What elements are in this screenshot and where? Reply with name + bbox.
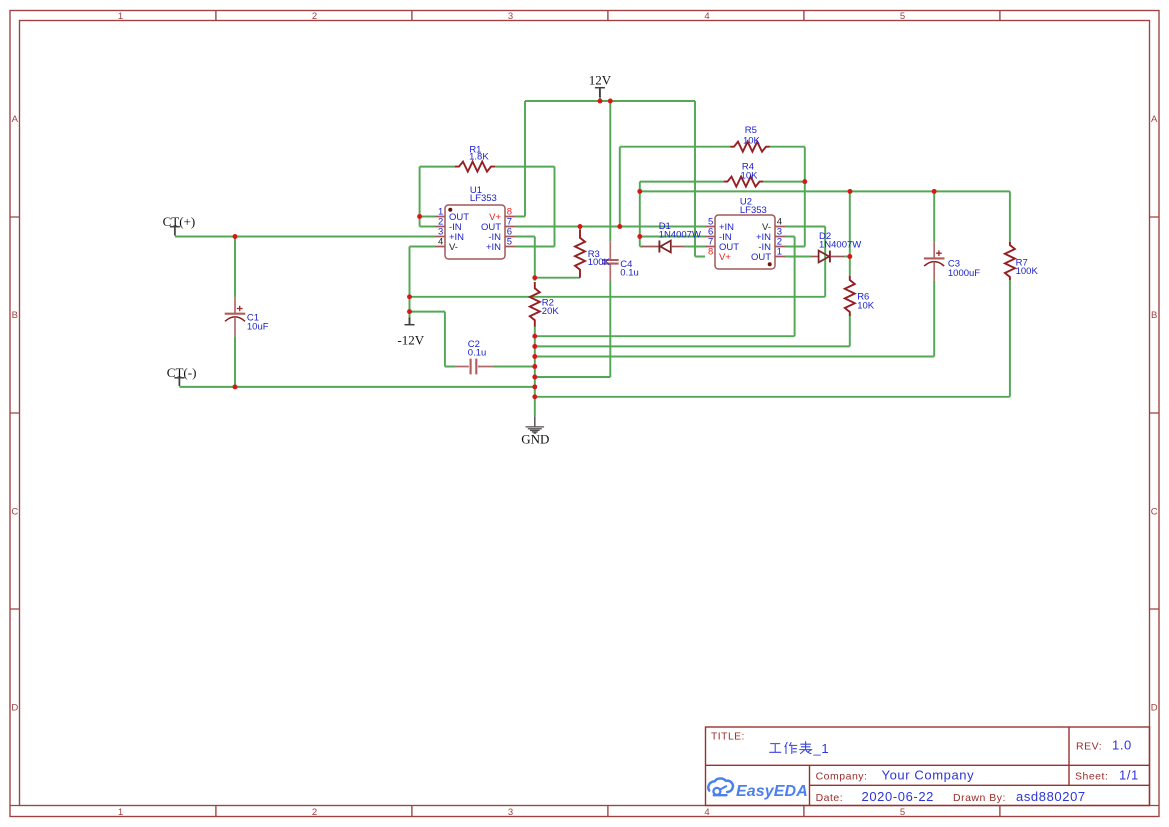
svg-text:10K: 10K bbox=[741, 170, 759, 181]
svg-text:1/1: 1/1 bbox=[1119, 768, 1139, 783]
wire 12V flag stub bbox=[599, 96, 601, 101]
wire 12V down to U2 pin8 bbox=[695, 101, 705, 257]
svg-text:V-: V- bbox=[449, 242, 458, 253]
wire GND bus vertical bbox=[534, 326, 536, 416]
wire CT(+) to U1 pin3 bbox=[175, 236, 435, 238]
node CT(-)/C1 bbox=[233, 384, 238, 389]
node R3 top bbox=[578, 224, 583, 229]
wire D2/R6 vertical bbox=[849, 191, 851, 256]
resistor R3 100K bbox=[575, 230, 611, 278]
node GND bus 6 bbox=[532, 384, 537, 389]
node rail/R6 bbox=[848, 189, 853, 194]
wire R4 right bbox=[763, 181, 804, 183]
svg-text:D: D bbox=[1151, 703, 1158, 714]
svg-text:TITLE:: TITLE: bbox=[711, 732, 745, 743]
resistor R2 20K bbox=[530, 282, 560, 327]
svg-text:A: A bbox=[12, 114, 19, 125]
svg-text:_1: _1 bbox=[813, 741, 830, 756]
svg-text:OUT: OUT bbox=[751, 252, 771, 263]
svg-text:1N4007W: 1N4007W bbox=[819, 240, 861, 251]
svg-text:C: C bbox=[11, 506, 18, 517]
svg-text:D: D bbox=[11, 703, 18, 714]
wire D2 to junction bbox=[845, 256, 850, 258]
node GND bus 3 bbox=[532, 354, 537, 359]
svg-text:1: 1 bbox=[118, 11, 123, 22]
op-amp U2 LF353 bbox=[705, 197, 785, 269]
wire R5 right bbox=[770, 146, 805, 148]
svg-text:1.8K: 1.8K bbox=[469, 151, 489, 162]
node 12V flag bbox=[598, 99, 603, 104]
resistor R5 10K bbox=[730, 125, 770, 152]
svg-text:+IN: +IN bbox=[486, 242, 501, 253]
wire U1 pin2 bbox=[420, 226, 435, 228]
node R4 right bbox=[802, 179, 807, 184]
node R3/R2/U1 pin6 bbox=[532, 275, 537, 280]
svg-text:4: 4 bbox=[438, 237, 443, 248]
svg-text:4: 4 bbox=[704, 807, 709, 818]
wire C1 top branch bbox=[234, 237, 236, 298]
resistor R6 10K bbox=[845, 276, 875, 316]
svg-text:3: 3 bbox=[508, 807, 513, 818]
capacitor C4 0.1u bbox=[602, 242, 639, 282]
svg-text:100K: 100K bbox=[1016, 266, 1039, 277]
wire U1 pin8 to 12V rail bbox=[515, 101, 525, 217]
svg-text:0.1u: 0.1u bbox=[468, 347, 487, 358]
capacitor C1 10uF polarized bbox=[225, 297, 269, 336]
wire R3 top stub bbox=[579, 227, 581, 231]
node rail/C3 bbox=[932, 189, 937, 194]
svg-text:10K: 10K bbox=[857, 300, 875, 311]
svg-text:B: B bbox=[12, 310, 18, 321]
wire D1 anode to U2 pin7 bbox=[685, 246, 705, 248]
wire R6 top stub bbox=[849, 257, 851, 277]
node -12V rail bbox=[407, 294, 412, 299]
wire U2 pin6 bbox=[640, 236, 705, 238]
wire R6 bottom to GND bus bbox=[535, 316, 850, 347]
wire U1 pin1 bbox=[420, 216, 435, 218]
svg-text:Drawn By:: Drawn By: bbox=[953, 792, 1006, 804]
wire U1 pin4 to -12V bbox=[410, 247, 436, 319]
node GND bus 5 bbox=[532, 375, 537, 380]
svg-text:C: C bbox=[1151, 506, 1158, 517]
wire 12V rail bbox=[525, 100, 695, 102]
svg-text:2: 2 bbox=[312, 11, 317, 22]
node R1/U1 pin1 bbox=[417, 214, 422, 219]
node -12V/C2 bbox=[407, 309, 412, 314]
svg-text:8: 8 bbox=[708, 247, 713, 258]
node D2/R6 bbox=[847, 254, 852, 259]
wire U1 pin7 OUT to U2 pin5 bbox=[515, 226, 705, 228]
svg-text:20K: 20K bbox=[542, 306, 560, 317]
node D1/U2 pin6 bbox=[637, 234, 642, 239]
svg-text:V+: V+ bbox=[719, 252, 731, 263]
wire C2 right to GND bus bbox=[494, 366, 535, 368]
wire R7 bottom to GND bus bbox=[535, 280, 1010, 397]
wire R1 left horizontal bbox=[420, 166, 455, 168]
svg-text:12V: 12V bbox=[589, 73, 612, 88]
svg-text:asd880207: asd880207 bbox=[1016, 789, 1086, 804]
net flag CT(+) bbox=[163, 214, 196, 236]
node R4/rail bbox=[637, 189, 642, 194]
node CT(+)/C1 bbox=[233, 234, 238, 239]
svg-text:1000uF: 1000uF bbox=[948, 268, 980, 279]
svg-text:LF353: LF353 bbox=[470, 193, 497, 204]
CJK title 工作表_1 bbox=[769, 741, 812, 754]
svg-text:R5: R5 bbox=[745, 125, 757, 136]
svg-text:-12V: -12V bbox=[397, 333, 424, 348]
wire C3 top stub bbox=[933, 191, 935, 241]
svg-text:Sheet:: Sheet: bbox=[1075, 771, 1108, 783]
wire C1 bottom to CT(-) net bbox=[234, 336, 236, 387]
wire U2 pin4 V- down bbox=[785, 227, 825, 297]
node GND bus 7 bbox=[532, 394, 537, 399]
node GND bus 1 bbox=[532, 334, 537, 339]
svg-text:10uF: 10uF bbox=[247, 321, 269, 332]
svg-text:0.1u: 0.1u bbox=[620, 267, 639, 278]
svg-text:2020-06-22: 2020-06-22 bbox=[862, 789, 935, 804]
node GND bus 2 bbox=[532, 344, 537, 349]
resistor R1 1.8K bbox=[455, 144, 496, 171]
svg-text:REV:: REV: bbox=[1076, 741, 1102, 753]
wire R1 left vertical bbox=[419, 167, 421, 227]
wire R1 right to U1 pin5 bbox=[495, 167, 554, 247]
diode D1 1N4007W bbox=[642, 221, 701, 253]
wire -12V rail horizontal bbox=[410, 296, 826, 298]
svg-text:A: A bbox=[1151, 114, 1158, 125]
wire U2 pin1 to D2 bbox=[785, 256, 811, 258]
wire -12V to C2 bbox=[410, 312, 456, 367]
svg-text:1.0: 1.0 bbox=[1112, 738, 1132, 753]
wire D1 cathode link bbox=[640, 246, 643, 248]
svg-text:B: B bbox=[1151, 310, 1157, 321]
node R5 branch bbox=[617, 224, 622, 229]
svg-text:5: 5 bbox=[900, 11, 905, 22]
node 12V/C4 bbox=[608, 99, 613, 104]
svg-text:Company:: Company: bbox=[816, 771, 868, 783]
svg-text:5: 5 bbox=[507, 237, 512, 248]
diode D2 1N4007W bbox=[811, 231, 861, 262]
EasyEDA logo bbox=[708, 778, 733, 795]
net flag CT(-) bbox=[167, 365, 197, 386]
resistor R4 10K bbox=[724, 161, 764, 186]
svg-text:GND: GND bbox=[521, 431, 549, 446]
wire main rail y191 bbox=[640, 190, 1010, 192]
wire R5 left bbox=[620, 147, 730, 227]
wire C4 top from 12V rail bbox=[609, 101, 611, 242]
net flag -12V bbox=[397, 318, 424, 348]
wire R7 top stub bbox=[1009, 191, 1011, 242]
svg-text:2: 2 bbox=[312, 807, 317, 818]
svg-text:1: 1 bbox=[118, 807, 123, 818]
svg-text:Your Company: Your Company bbox=[882, 768, 975, 783]
ground GND bbox=[521, 417, 549, 447]
net flag 12V bbox=[589, 73, 612, 97]
op-amp U1 LF353 bbox=[435, 185, 515, 259]
wire CT(-) bus bbox=[179, 386, 534, 388]
wire R3 bottom to R2 top bbox=[535, 277, 580, 279]
capacitor C3 1000uF polarized bbox=[924, 242, 980, 281]
svg-text:4: 4 bbox=[704, 11, 709, 22]
wire C3 bottom to GND bus bbox=[535, 281, 934, 357]
node GND bus 4 bbox=[532, 364, 537, 369]
svg-text:EasyEDA: EasyEDA bbox=[736, 783, 808, 800]
wire C4 bottom to GND bus bbox=[535, 282, 611, 378]
svg-text:5: 5 bbox=[900, 807, 905, 818]
wire R5/R4 right vertical to U2 pin2 bbox=[785, 147, 805, 247]
resistor R7 100K bbox=[1005, 242, 1039, 280]
wire U1 pin6 down bbox=[515, 237, 535, 281]
svg-text:3: 3 bbox=[508, 11, 513, 22]
svg-text:Date:: Date: bbox=[816, 792, 844, 804]
wire R4 left bbox=[640, 182, 724, 247]
capacitor C2 0.1u bbox=[456, 339, 494, 374]
svg-text:10K: 10K bbox=[743, 135, 761, 146]
svg-text:1: 1 bbox=[777, 247, 782, 258]
svg-text:1N4007W: 1N4007W bbox=[659, 230, 701, 241]
wire U2 pin3 down to GND bus bbox=[535, 237, 795, 337]
title block bbox=[706, 727, 1150, 806]
svg-text:100K: 100K bbox=[588, 257, 611, 268]
